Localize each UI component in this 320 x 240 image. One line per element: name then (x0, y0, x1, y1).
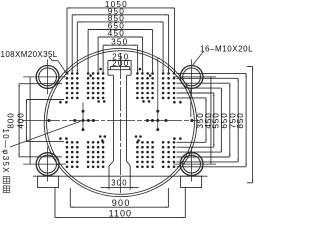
dimension 250 (108, 53, 131, 70)
svg-text:350: 350 (111, 37, 128, 46)
tie bar hole TR (173, 59, 216, 94)
dimension 850 top (77, 14, 164, 73)
label 10-phi35X through-hole (1, 121, 82, 193)
svg-text:850: 850 (235, 112, 245, 128)
tie bar hole BL (23, 147, 66, 182)
dimension line outer right (247, 67, 253, 183)
dimension 650 top (88, 22, 154, 73)
dimension 1100 bottom (55, 188, 185, 218)
horizontal centerline (22, 120, 199, 122)
M20 tap hole grid lower-left inner (87, 141, 105, 168)
dimension 650 right (177, 83, 231, 157)
dimension 350 top (103, 37, 139, 73)
central T-slot outline (108, 70, 131, 177)
svg-text:900: 900 (112, 198, 131, 208)
plate right edge (210, 77, 212, 164)
dimension 350 right (177, 98, 207, 142)
svg-text:200: 200 (112, 59, 129, 68)
dimension 950 top (72, 7, 170, 73)
plate left edge (29, 77, 31, 164)
M20 tap hole grid upper-right inner (136, 72, 154, 99)
dimension 550 right (177, 88, 223, 152)
dimension 800 left (6, 84, 63, 157)
label 16-M10X20L (192, 44, 253, 65)
right foot (181, 176, 202, 187)
tie bar hole BR (173, 147, 216, 182)
svg-text:16–M10X20L: 16–M10X20L (200, 44, 253, 53)
dimension 300 bottom (101, 176, 139, 190)
dimension 850 right (177, 73, 247, 166)
M20 tap hole grid upper-right outer (162, 72, 176, 99)
M20 tap hole grid lower-left outer (66, 141, 79, 168)
dimension 450 right (177, 93, 215, 147)
svg-text:300: 300 (111, 179, 128, 188)
dimension 1050 top (67, 0, 176, 73)
M20 tap hole grid lower-right inner (136, 141, 154, 168)
left foot (38, 176, 59, 187)
platen face outer circle (44, 48, 197, 196)
staggered tap holes (59, 68, 182, 142)
svg-text:400: 400 (16, 112, 26, 128)
plate bottom edge (33, 175, 208, 177)
dimension 900 bottom (70, 188, 168, 208)
M20 tap hole grid upper-left outer (66, 72, 79, 99)
M20 tap hole grid lower-right outer (162, 141, 176, 168)
label 108XM20X35L (1, 50, 68, 74)
dimension 450 top (98, 29, 144, 73)
tie bar hole TL (23, 59, 66, 94)
svg-text:1100: 1100 (109, 208, 132, 218)
dimension 200 (110, 59, 130, 70)
vertical centerline (119, 53, 121, 193)
svg-text:10—φ35X: 10—φ35X (1, 129, 10, 174)
dimension 400 left (16, 100, 64, 142)
extension line phi35 right (190, 88, 191, 118)
phi35 through holes (48, 58, 194, 131)
dimension 750 right (177, 78, 239, 162)
platen face inner circle (47, 51, 195, 195)
M20 tap hole grid upper-left inner (87, 72, 105, 99)
svg-text:800: 800 (6, 112, 16, 128)
